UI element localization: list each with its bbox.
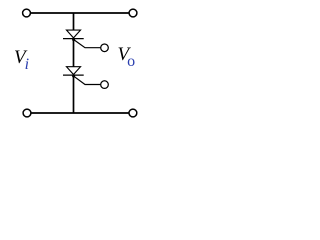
wire tap to Vo upper terminal [74, 40, 101, 48]
wire top rail [31, 12, 129, 14]
diode D1 [63, 30, 84, 38]
wire D1 cathode to diode D2 [73, 39, 75, 67]
terminal top-right [129, 9, 137, 17]
label Vo [118, 44, 136, 71]
terminal bottom-left [23, 109, 31, 117]
terminal Vo lower [101, 81, 109, 89]
terminal top-left [23, 9, 31, 17]
node junction D1 cathode [72, 38, 75, 41]
terminal bottom-right [129, 109, 137, 117]
diode D2 [63, 67, 84, 75]
node junction D2 cathode [72, 75, 75, 78]
wire bottom rail [31, 112, 128, 114]
wire D2 cathode to bottom rail [73, 75, 75, 113]
label Vi [14, 47, 29, 75]
wire tap to Vo lower terminal [74, 76, 101, 84]
wire from top rail to diode D1 [73, 13, 75, 30]
terminal Vo upper [101, 44, 109, 52]
